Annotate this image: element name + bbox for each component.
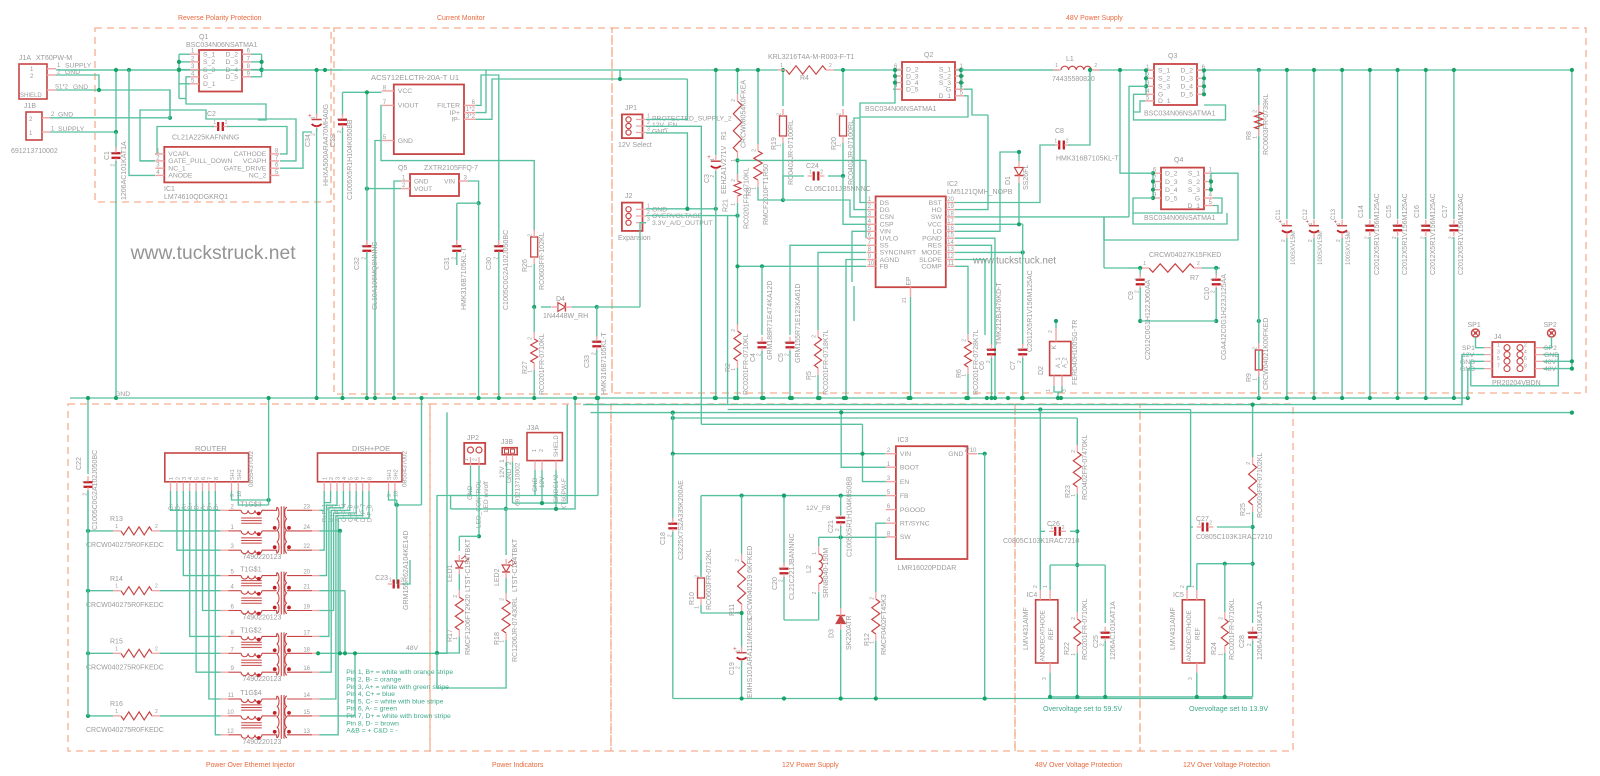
svg-text:GRM188R71E474KA12D: GRM188R71E474KA12D [767,281,774,360]
wire: R7 node line [1128,267,1141,269]
svg-text:1: 1 [812,552,818,555]
svg-text:2: 2 [1392,236,1398,239]
wire: 48V net vertical to J4 [1571,70,1573,369]
svg-text:D2: D2 [1038,366,1045,375]
svg-text:S_2: S_2 [1158,76,1170,83]
svg-text:R6: R6 [956,369,963,378]
svg-text:VIN: VIN [444,178,455,185]
svg-text:21: 21 [303,585,310,591]
svg-text:GND: GND [948,451,963,458]
svg-text:23: 23 [303,504,310,510]
section frame: 48V Power Supply [612,28,1586,393]
wire: D1 anode from VCC line [1018,152,1020,161]
svg-text:4: 4 [342,477,348,480]
svg-text:12V Select: 12V Select [618,142,652,149]
svg-text:C4: C4 [750,353,757,362]
svg-text:R10: R10 [689,592,696,605]
svg-text:Overvoltage set to 13.9V: Overvoltage set to 13.9V [1189,704,1268,713]
svg-text:R13: R13 [110,516,123,523]
svg-text:3: 3 [1062,389,1068,392]
wire: R19 bottom to C24 node [782,143,784,200]
svg-text:3: 3 [647,217,650,223]
svg-text:R21: R21 [723,199,730,212]
svg-text:14: 14 [947,240,954,246]
wire: D2 anode top from SW [1055,321,1057,328]
wire: C2 right to IC1 cathode [227,127,287,154]
svg-text:SP1: SP1 [1468,322,1481,329]
wire: IC5 cathode from C27 [1186,586,1188,590]
svg-text:3: 3 [1497,349,1500,355]
svg-text:EMHS101ARA111MKE0S: EMHS101ARA111MKE0S [747,617,754,698]
svg-text:100SXV15M: 100SXV15M [1291,231,1297,265]
svg-text:BSC034N06NSATMA1: BSC034N06NSATMA1 [1144,215,1216,222]
svg-text:1: 1 [809,170,812,176]
section frame: Reverse Polarity Protection [95,28,331,202]
wire: OVERVOLTAGE net long [728,409,1191,411]
capacitor C15 C2012X5R1V156M125AC [1393,225,1402,227]
svg-text:3: 3 [1188,677,1194,680]
svg-text:RES: RES [928,243,942,250]
wire: ovp12 rail [1197,696,1253,698]
svg-text:R22: R22 [1064,642,1071,655]
svg-text:1: 1 [1055,63,1058,69]
svg-text:SS: SS [880,243,890,250]
svg-text:SYNCIN/RT: SYNCIN/RT [880,250,917,257]
svg-text:KRL3216T4A-M-R003-F-T1: KRL3216T4A-M-R003-F-T1 [768,54,854,61]
svg-text:JP2: JP2 [467,435,479,442]
wire: ROUTER shield stubs to gnd bus [232,491,269,500]
svg-text:2: 2 [175,477,181,480]
svg-text:12V_FB: 12V_FB [806,505,831,512]
svg-text:K: K [1051,345,1058,350]
svg-text:C3: C3 [704,174,711,183]
wire: JP1 12V_EN down to 12V supply enable [646,126,701,424]
svg-text:2: 2 [1252,347,1258,350]
wire: J1B supply [50,131,116,133]
svg-text:2: 2 [500,598,506,601]
wire: D1 cathode down to C7 line [1019,183,1023,224]
capacitor C3 polarized EEHZA1V271V [715,70,717,155]
wire: Q2 sources to L1 bus [960,69,962,89]
svg-text:SH2: SH2 [393,469,399,480]
wire: Q1 drain connect [261,54,263,77]
svg-text:7: 7 [361,477,367,480]
svg-text:2: 2 [869,597,875,600]
wire: IC2 MODE to C7 line [955,251,1023,253]
wire: 12V_EN long net [701,423,862,425]
capacitor C16 C2012X5R1V156M125AC [1421,225,1430,227]
svg-text:RC0603FR-0739KL: RC0603FR-0739KL [1263,93,1270,155]
svg-text:Q3: Q3 [1168,53,1177,60]
svg-text:5: 5 [195,477,201,480]
svg-text:HMK316B7105KL-T: HMK316B7105KL-T [601,332,608,395]
svg-text:C16: C16 [1414,205,1421,218]
wire: Q4 drains [1152,173,1154,198]
wire: sense line left end [853,286,855,321]
wire: J3A GND net [535,495,598,497]
svg-text:CATHODE: CATHODE [1040,610,1047,640]
svg-text:ANODE: ANODE [1040,639,1047,661]
svg-text:1: 1 [1448,223,1454,226]
svg-text:2: 2 [1448,236,1454,239]
svg-text:VCAPL: VCAPL [168,151,191,158]
svg-text:FERD40H100SG-TR: FERD40H100SG-TR [1072,320,1079,385]
svg-text:2: 2 [1420,236,1426,239]
resistor R25 RC0603FR-07102KL [1252,440,1254,457]
svg-text:C18: C18 [660,532,667,545]
connector ROUTER pins [170,482,172,491]
svg-text:CRCW04027K15FKED: CRCW04027K15FKED [1149,252,1221,259]
wire: Q5 GND down [394,181,401,398]
svg-text:S_2: S_2 [1188,179,1200,186]
svg-text:2: 2 [1071,450,1077,453]
connector J1A XT60PW-M [19,64,47,99]
wire: U1 FILTER to C30 [476,75,499,245]
wire: R3 bottom to C24 [758,187,783,200]
svg-text:CSN: CSN [880,214,894,221]
svg-text:PGND: PGND [922,236,942,243]
wire: C17 net vertical [1453,70,1455,219]
svg-text:48V: 48V [1544,359,1557,366]
svg-text:T1G$4: T1G$4 [240,690,262,697]
svg-text:D_4: D_4 [1165,187,1178,194]
svg-text:DS: DS [880,200,890,207]
svg-text:LMR16020PDDAR: LMR16020PDDAR [898,565,957,572]
wire: IC2 EP pad to gnd [910,287,912,297]
svg-text:3: 3 [336,477,342,480]
svg-text:BSC034N06NSATMA1: BSC034N06NSATMA1 [1144,111,1216,118]
svg-text:1206AC101KAT1A: 1206AC101KAT1A [1257,601,1264,660]
svg-text:18: 18 [303,647,310,653]
svg-text:6: 6 [355,477,361,480]
svg-text:48V Power Supply: 48V Power Supply [1066,15,1123,22]
svg-text:2: 2 [1364,236,1370,239]
svg-text:RC0201FR-0710KL: RC0201FR-0710KL [539,333,546,395]
wire: J1A shield gnd [56,90,170,118]
wire: Q1 gate loop [186,77,266,120]
svg-text:SS26FL: SS26FL [1023,165,1030,190]
wire: C24 wiring [783,176,804,200]
svg-text:R14: R14 [110,576,123,583]
svg-text:C25: C25 [1093,635,1100,648]
resistor R23 RC0402FR-07470KL [1076,422,1078,445]
capacitor C13 polarized 100SXV15M [1337,225,1347,227]
svg-text:48V Over Voltage Protection: 48V Over Voltage Protection [1035,762,1122,769]
svg-text:1: 1 [1198,521,1201,527]
svg-text:RC0201FR-0710KL: RC0201FR-0710KL [743,333,750,395]
capacitor C30 [494,245,503,247]
capacitor C20 CL21C221JBANNNC [783,496,785,565]
svg-text:2: 2 [820,170,823,176]
svg-text:1: 1 [361,244,367,247]
section frame: 12V Over Voltage Protection [1140,404,1293,751]
svg-text:C3225X7S2A335K200AE: C3225X7S2A335K200AE [678,480,685,560]
svg-text:RMCF0402FT45K3: RMCF0402FT45K3 [881,594,888,655]
wire: J3A pins down [534,470,536,496]
wire: C13 net vertical [1341,70,1343,219]
svg-text:691213710002: 691213710002 [11,148,58,155]
svg-text:2: 2 [731,99,737,102]
wire: 12V supply output [984,453,986,455]
resistor R1 CRCW08054K0FKEA [737,70,739,94]
svg-text:Q5: Q5 [398,165,407,172]
wire: IC2 COMP to R6 [955,266,968,334]
wire: C2 left to IC1 [155,127,214,154]
svg-text:48V: 48V [406,645,419,652]
svg-text:C0805C103K1RAC7210: C0805C103K1RAC7210 [1196,534,1272,541]
wire: ROUTER pin columns to transformers [171,491,221,510]
resistor R21 RC0201FR-0710KL [734,181,741,196]
svg-text:MODE: MODE [921,250,942,257]
svg-text:CGA4J2C0G1H223J125AA: CGA4J2C0G1H223J125AA [1221,274,1228,360]
svg-text:C32: C32 [354,257,361,270]
svg-text:R23: R23 [1065,485,1072,498]
svg-text:2: 2 [837,113,843,116]
svg-text:ZXTR2105FFQ-7: ZXTR2105FFQ-7 [424,165,478,172]
svg-text:2: 2 [777,113,783,116]
svg-text:74435580820: 74435580820 [1052,76,1095,83]
resistor R2 RC0201FR-0710KL [734,331,741,361]
section frame: 48V Over Voltage Protection [1015,404,1140,751]
svg-text:ACS712ELCTR-20A-T U1: ACS712ELCTR-20A-T U1 [371,73,459,82]
svg-text:CRCW040275R0FKEDC: CRCW040275R0FKEDC [86,665,164,672]
capacitor C10 CGA4J2C0G1H223J125AA [1215,268,1217,276]
svg-text:2: 2 [1033,585,1039,588]
wire: Q5 VIN to C31 node [468,181,479,203]
wire: REF node 12V ovp [1197,563,1253,565]
svg-text:48V: 48V [1544,366,1557,373]
section frame: 12V Power Supply [611,404,1015,751]
svg-text:C22: C22 [76,457,83,470]
svg-text:CSP: CSP [880,222,894,229]
svg-text:LTST-C194TBKT: LTST-C194TBKT [465,538,472,592]
capacitor C9 C2012C0G1H122J060AA [1139,268,1141,276]
svg-text:C2012X5R1V156M125AC: C2012X5R1V156M125AC [1402,193,1409,275]
wire: 12V net to J4 [583,404,1462,406]
led LED2 LTST-C194TBKT [505,509,507,555]
led LED1 LTST-C194TBKT [459,535,479,537]
svg-text:ANODE: ANODE [1186,639,1193,661]
svg-text:0855437002: 0855437002 [248,450,255,487]
resistor R10 RC0603FR-0712KL [700,560,702,572]
resistor R27 RC0201FR-0710KL [533,307,535,332]
svg-text:16: 16 [947,226,954,232]
wire: U1 IP+ from supply bus [476,70,486,113]
wire: Q2 D1 loop [860,89,968,117]
svg-text:2: 2 [1180,585,1186,588]
svg-text:Reverse Polarity Protection: Reverse Polarity Protection [178,15,262,22]
svg-text:GRM155R62A104KE14D: GRM155R62A104KE14D [403,531,410,610]
svg-text:1: 1 [1046,389,1052,392]
capacitor C6 TMK212BJ476KD-T [987,349,996,351]
connector DISH+POE pins [323,482,325,491]
wire: IC2 SW node [955,216,1129,218]
svg-text:2: 2 [1066,139,1069,145]
svg-text:1206AC101KAT1A: 1206AC101KAT1A [1110,601,1117,660]
svg-text:R4: R4 [800,75,809,82]
wire: D4 cathode to C33 and J2 [572,306,597,308]
capacitor C23 GRM155R62A104KE14D [396,570,398,584]
svg-text:IC2: IC2 [947,181,958,188]
wire: VIN line [673,453,886,455]
svg-text:EP: EP [906,276,913,286]
svg-text:D_2: D_2 [1181,68,1194,75]
svg-text:1: 1 [731,203,737,206]
svg-text:J4: J4 [1494,334,1502,341]
svg-text:GND: GND [398,138,413,145]
svg-text:D_5: D_5 [226,74,239,81]
test point SP1 [1472,329,1480,337]
svg-text:C1005X5R1H104K050BB: C1005X5R1H104K050BB [347,119,354,200]
svg-text:T1G$2: T1G$2 [240,627,262,634]
svg-text:4: 4 [1524,349,1527,355]
svg-text:1: 1 [667,521,673,524]
wire: Q2 gate from IC2 HO [964,89,988,115]
svg-text:CL05C101JB5NNNC: CL05C101JB5NNNC [805,186,871,193]
svg-text:BST: BST [929,200,942,207]
svg-text:R15: R15 [110,639,123,646]
svg-text:SK220ATR: SK220ATR [846,616,853,651]
svg-text:LMV431AIMF: LMV431AIMF [1170,607,1177,650]
svg-text:10: 10 [868,261,875,267]
svg-text:LED on/off: LED on/off [483,481,490,512]
svg-text:19: 19 [303,605,310,611]
wire: Q3 gate loop and value frame [1134,94,1226,120]
wire: IC2 VIN from supply [852,231,866,282]
svg-text:VIOUT: VIOUT [398,103,419,110]
wire: R26 to D4 [533,264,535,307]
svg-text:13: 13 [947,247,954,253]
resistor R6 RC0201FR-0728K7L [965,341,972,367]
svg-text:1: 1 [1252,378,1258,381]
wire: IC3 GND down [978,453,985,455]
svg-text:2: 2 [695,575,701,578]
wire: Q4 drain feed from L1 node [1120,70,1153,173]
wire: IC2 HO to Q2 gate [955,115,988,210]
wire: IC1 anode to supply col [129,70,155,175]
svg-text:J3B: J3B [501,439,513,446]
svg-text:13: 13 [303,729,310,735]
wire: IC3 EN from 12V_EN net [863,424,886,481]
svg-text:C11: C11 [1276,209,1282,220]
svg-text:Power Indicators: Power Indicators [492,762,544,769]
wire: IC2 PGND down [955,238,995,398]
svg-text:1: 1 [1497,342,1500,348]
svg-text:VCAPH: VCAPH [243,158,267,165]
svg-text:1: 1 [213,120,216,126]
svg-text:C33: C33 [584,355,591,368]
svg-text:12V Power Supply: 12V Power Supply [782,762,839,769]
svg-text:17: 17 [303,630,310,636]
resistor R9 CRCW04021K00FKED [1255,350,1262,370]
svg-text:R9: R9 [1246,373,1253,382]
svg-text:R2: R2 [725,363,732,372]
wire: R18 down [437,640,506,688]
wire: IC2 DG [854,118,866,210]
svg-text:8: 8 [1524,363,1527,369]
wire: Q5 VOUT to C32 column [367,188,401,190]
wire: 48V net long [591,412,1572,414]
svg-text:LED2: LED2 [494,568,501,586]
svg-text:SRN8040-150M: SRN8040-150M [823,548,830,598]
wire: gate drive loop top [185,103,187,105]
wire: IC2 AGND down [846,260,866,399]
svg-text:D_3: D_3 [1165,179,1178,186]
resistor R19 RC0402JR-07100RL [782,70,784,106]
svg-text:Current Monitor: Current Monitor [437,15,486,22]
svg-text:1: 1 [1364,223,1370,226]
svg-text:R19: R19 [771,137,778,150]
svg-text:D_1: D_1 [1188,203,1201,210]
svg-text:C1005X5R1H104K050BB: C1005X5R1H104K050BB [847,476,854,557]
resistor R11 CRCW040219 6KFKED [741,496,743,554]
svg-text:2: 2 [1252,110,1258,113]
svg-text:R20: R20 [831,137,838,150]
wire: VCC node line [343,91,382,93]
svg-text:1: 1 [1054,139,1057,145]
svg-text:R7: R7 [1190,275,1199,282]
svg-text:1: 1 [115,646,118,652]
svg-text:GND: GND [652,129,667,136]
svg-text:1N4448W_RH: 1N4448W_RH [543,313,588,320]
capacitor C4 GRM188R71E474KA12D [758,342,767,344]
svg-text:www.tuckstruck.net: www.tuckstruck.net [130,243,297,264]
wire: J4 48V pins [1543,360,1572,362]
svg-text:GATE_DRIVE: GATE_DRIVE [224,166,267,173]
svg-text:EN: EN [900,479,910,486]
wire: supply vertical to C1 [115,70,117,132]
resistor R26 RC0603FR-102KL [531,237,538,257]
svg-text:1: 1 [451,244,457,247]
svg-text:L2: L2 [806,565,813,573]
svg-text:1: 1 [311,116,317,119]
wire: R8 R9 vertical [1258,70,1260,398]
wire: R21 bottom to R2 chain [737,216,739,325]
svg-text:1: 1 [1050,525,1053,531]
diode D2 FERD40H100SG-TR [1050,342,1071,376]
svg-text:2: 2 [1048,330,1054,333]
wire: overvoltage to IC5 cathode [1190,410,1192,528]
svg-text:HMK316B7105KL-T: HMK316B7105KL-T [1056,156,1119,163]
svg-text:R1: R1 [721,131,728,140]
wire: ovp48 rail [1050,696,1253,698]
svg-text:R8: R8 [1246,131,1253,140]
svg-text:D_5: D_5 [1165,195,1178,202]
svg-text:2: 2 [155,646,158,652]
wire: R13-R16 to transformer center pins [160,530,221,532]
svg-text:19: 19 [947,204,954,210]
diode D1 SS26FL [1015,168,1024,176]
svg-text:2: 2 [539,449,545,452]
svg-text:1: 1 [169,477,175,480]
wire: IC2 SLOPE [955,260,985,331]
svg-text:DISH+POE: DISH+POE [352,444,390,453]
svg-text:C1: C1 [104,151,111,160]
svg-text:C2: C2 [207,111,216,118]
svg-text:D_2: D_2 [226,52,239,59]
svg-text:1: 1 [83,480,89,483]
svg-text:1: 1 [464,458,470,461]
wire: JP1 pin1 protected supply [646,79,687,119]
wire: R13-R16 left column [88,530,113,532]
wire: R17 to gnd return [437,496,535,654]
svg-text:HO: HO [932,207,942,214]
svg-text:C0805C103K1RAC7210: C0805C103K1RAC7210 [1003,538,1079,545]
svg-text:Pin 6, A- = green: Pin 6, A- = green [346,706,397,713]
svg-text:R17: R17 [447,629,454,642]
svg-text:SW: SW [900,534,912,541]
svg-text:1: 1 [986,347,992,350]
